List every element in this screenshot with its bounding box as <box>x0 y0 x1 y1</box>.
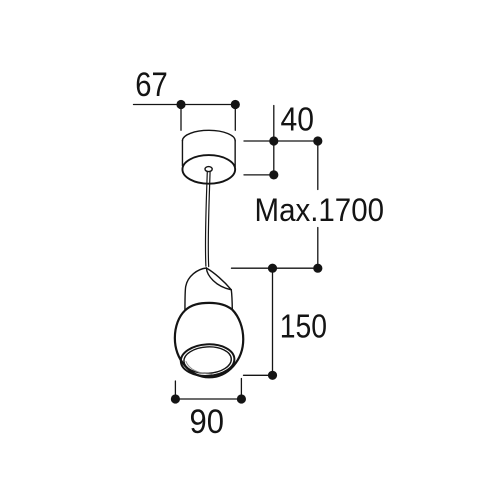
svg-text:Max.1700: Max.1700 <box>255 192 385 228</box>
lens glass reflection arc <box>186 362 212 375</box>
dimension line max1700 lower segment <box>317 228 319 269</box>
svg-text:90: 90 <box>190 403 225 441</box>
canopy right side <box>234 141 236 167</box>
dot max1700 bottom <box>313 264 322 273</box>
dot 40 top <box>269 136 278 145</box>
cable right strand <box>208 171 210 266</box>
dot 150 bottom <box>268 371 277 380</box>
dot 67 right <box>231 100 240 109</box>
witness line left of 67 <box>180 105 182 131</box>
lamp neck right outline <box>231 290 232 310</box>
lamp neck left outline <box>185 268 206 311</box>
svg-text:67: 67 <box>135 66 168 104</box>
cable left strand <box>205 171 207 266</box>
lamp bulb outline with shoulder <box>175 303 243 377</box>
witness line left of 90 <box>174 381 176 399</box>
lens outer ring <box>180 343 235 377</box>
dot 150 top <box>268 264 277 273</box>
lamp neck opening upper edge <box>206 268 231 290</box>
canopy bottom ellipse <box>182 155 235 184</box>
canopy top ellipse arc <box>182 130 235 141</box>
lens inner ring <box>183 346 232 375</box>
dimension line 40 vertical <box>273 106 275 175</box>
dimension line canopy top level <box>244 140 319 142</box>
dot 67 left <box>176 100 185 109</box>
svg-text:40: 40 <box>281 101 315 138</box>
dimension line head bottom level <box>244 374 273 376</box>
dot max1700 top <box>313 136 322 145</box>
dimension line 90 <box>174 398 244 400</box>
dot 90 right <box>237 394 246 403</box>
witness line right of 90 <box>240 379 242 399</box>
dimension line 67 <box>134 104 237 106</box>
dimension line max1700 upper segment <box>317 141 319 190</box>
dot 40 bottom <box>269 170 278 179</box>
dimension line 150 vertical <box>272 268 274 375</box>
dimension line head top level <box>232 267 320 269</box>
dot 90 left <box>171 394 180 403</box>
lamp neck opening lower edge <box>206 268 231 290</box>
canopy left side <box>181 141 183 166</box>
dimension line canopy bottom level <box>244 174 275 176</box>
cable grommet <box>205 167 212 172</box>
witness line right of 67 <box>234 105 236 131</box>
svg-text:150: 150 <box>280 307 327 344</box>
